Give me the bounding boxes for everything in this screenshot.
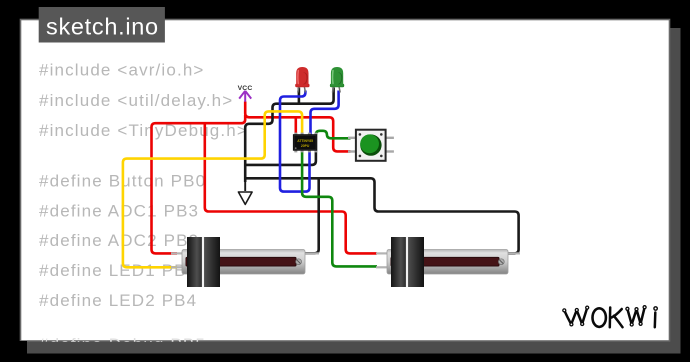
ground: [244, 181, 246, 191]
cover below canvas (clip bottom text): [27, 342, 681, 354]
wire: red VCC to button lower-left leg: [245, 102, 350, 152]
wire: black LED cathodes bus to ground vertical: [245, 88, 333, 183]
svg-text:ATTINY85: ATTINY85: [297, 139, 313, 143]
LED red D1: [295, 67, 309, 93]
wire: red branch to pot2 left-upper: [205, 123, 377, 253]
K: [610, 308, 623, 328]
wire: red VCC stem + branch to chip pin8 and button: [152, 102, 378, 254]
wire: green chip pin2 to pot2 left-lower: [302, 151, 377, 266]
faded code text: [39, 61, 248, 354]
wire: black LED cathode bus to ground: [245, 88, 518, 254]
wire: blue red-LED anode to chip pin3: [280, 91, 310, 192]
W2: [627, 307, 644, 324]
wire: green chip pin5 to button upper-left leg: [316, 131, 351, 139]
WOKWI logo: [563, 306, 658, 328]
wire: blue green-LED to chip pin6: [311, 91, 339, 136]
wire: red chip pin8 drop: [294, 117, 297, 135]
svg-text:sketch.ino: sketch.ino: [46, 14, 159, 40]
potentiometer VR1: [171, 237, 319, 287]
wire: yellow chip pin7 to pot1 lower-left: [123, 111, 302, 267]
wire: red VCC to pot1 left-upper: [152, 115, 246, 253]
wire: green chip pin5 to button: [302, 131, 377, 267]
potentiometer VR2: [376, 237, 520, 287]
svg-text:20PU: 20PU: [301, 144, 310, 148]
LED green D2: [330, 67, 344, 93]
wire: yellow chip pin7 to pot1 left-lower: [123, 111, 302, 267]
wire: blue red-LED to chip pin3 (U under chip): [280, 91, 339, 192]
wire: black ground branch to pot2 right: [245, 178, 518, 253]
wire: black pot1 right tee: [304, 178, 319, 253]
svg-text:#define ADC1 PB3: #define ADC1 PB3: [39, 201, 199, 220]
svg-text:#define LED1 PB1: #define LED1 PB1: [39, 261, 197, 280]
chip U1 ATTINY85: [293, 133, 318, 153]
sketch.ino tab: [39, 7, 165, 43]
VCC symbol: [238, 85, 253, 102]
svg-text:#define ADC2 PB2: #define ADC2 PB2: [39, 231, 199, 250]
I: [654, 313, 657, 328]
svg-text:#include <util/delay.h>: #include <util/delay.h>: [39, 91, 233, 110]
W1: [564, 308, 587, 325]
svg-text:#define LED2 PB4: #define LED2 PB4: [39, 291, 197, 310]
button SW1: [348, 130, 394, 161]
wire: black ground branch to chip pin4: [245, 151, 316, 165]
O: [593, 308, 606, 327]
svg-text:#include <avr/io.h>: #include <avr/io.h>: [39, 61, 205, 80]
